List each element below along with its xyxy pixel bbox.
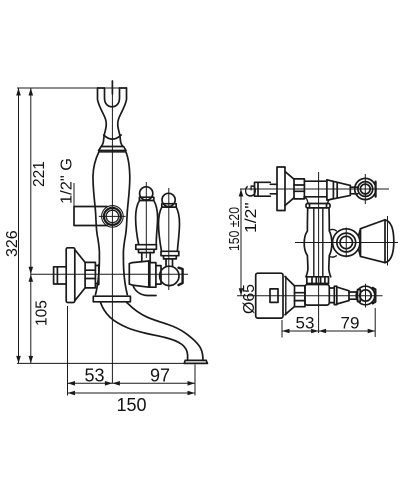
svg-text:326: 326 [4,230,21,257]
svg-text:105: 105 [34,300,51,326]
svg-text:1/2" G: 1/2" G [58,158,75,204]
svg-text:97: 97 [150,366,170,386]
svg-text:79: 79 [341,314,360,333]
svg-text:150: 150 [117,395,147,415]
svg-text:150 ±20: 150 ±20 [226,207,243,251]
svg-text:53: 53 [296,314,315,333]
svg-text:53: 53 [85,366,105,386]
svg-text:221: 221 [31,161,48,187]
